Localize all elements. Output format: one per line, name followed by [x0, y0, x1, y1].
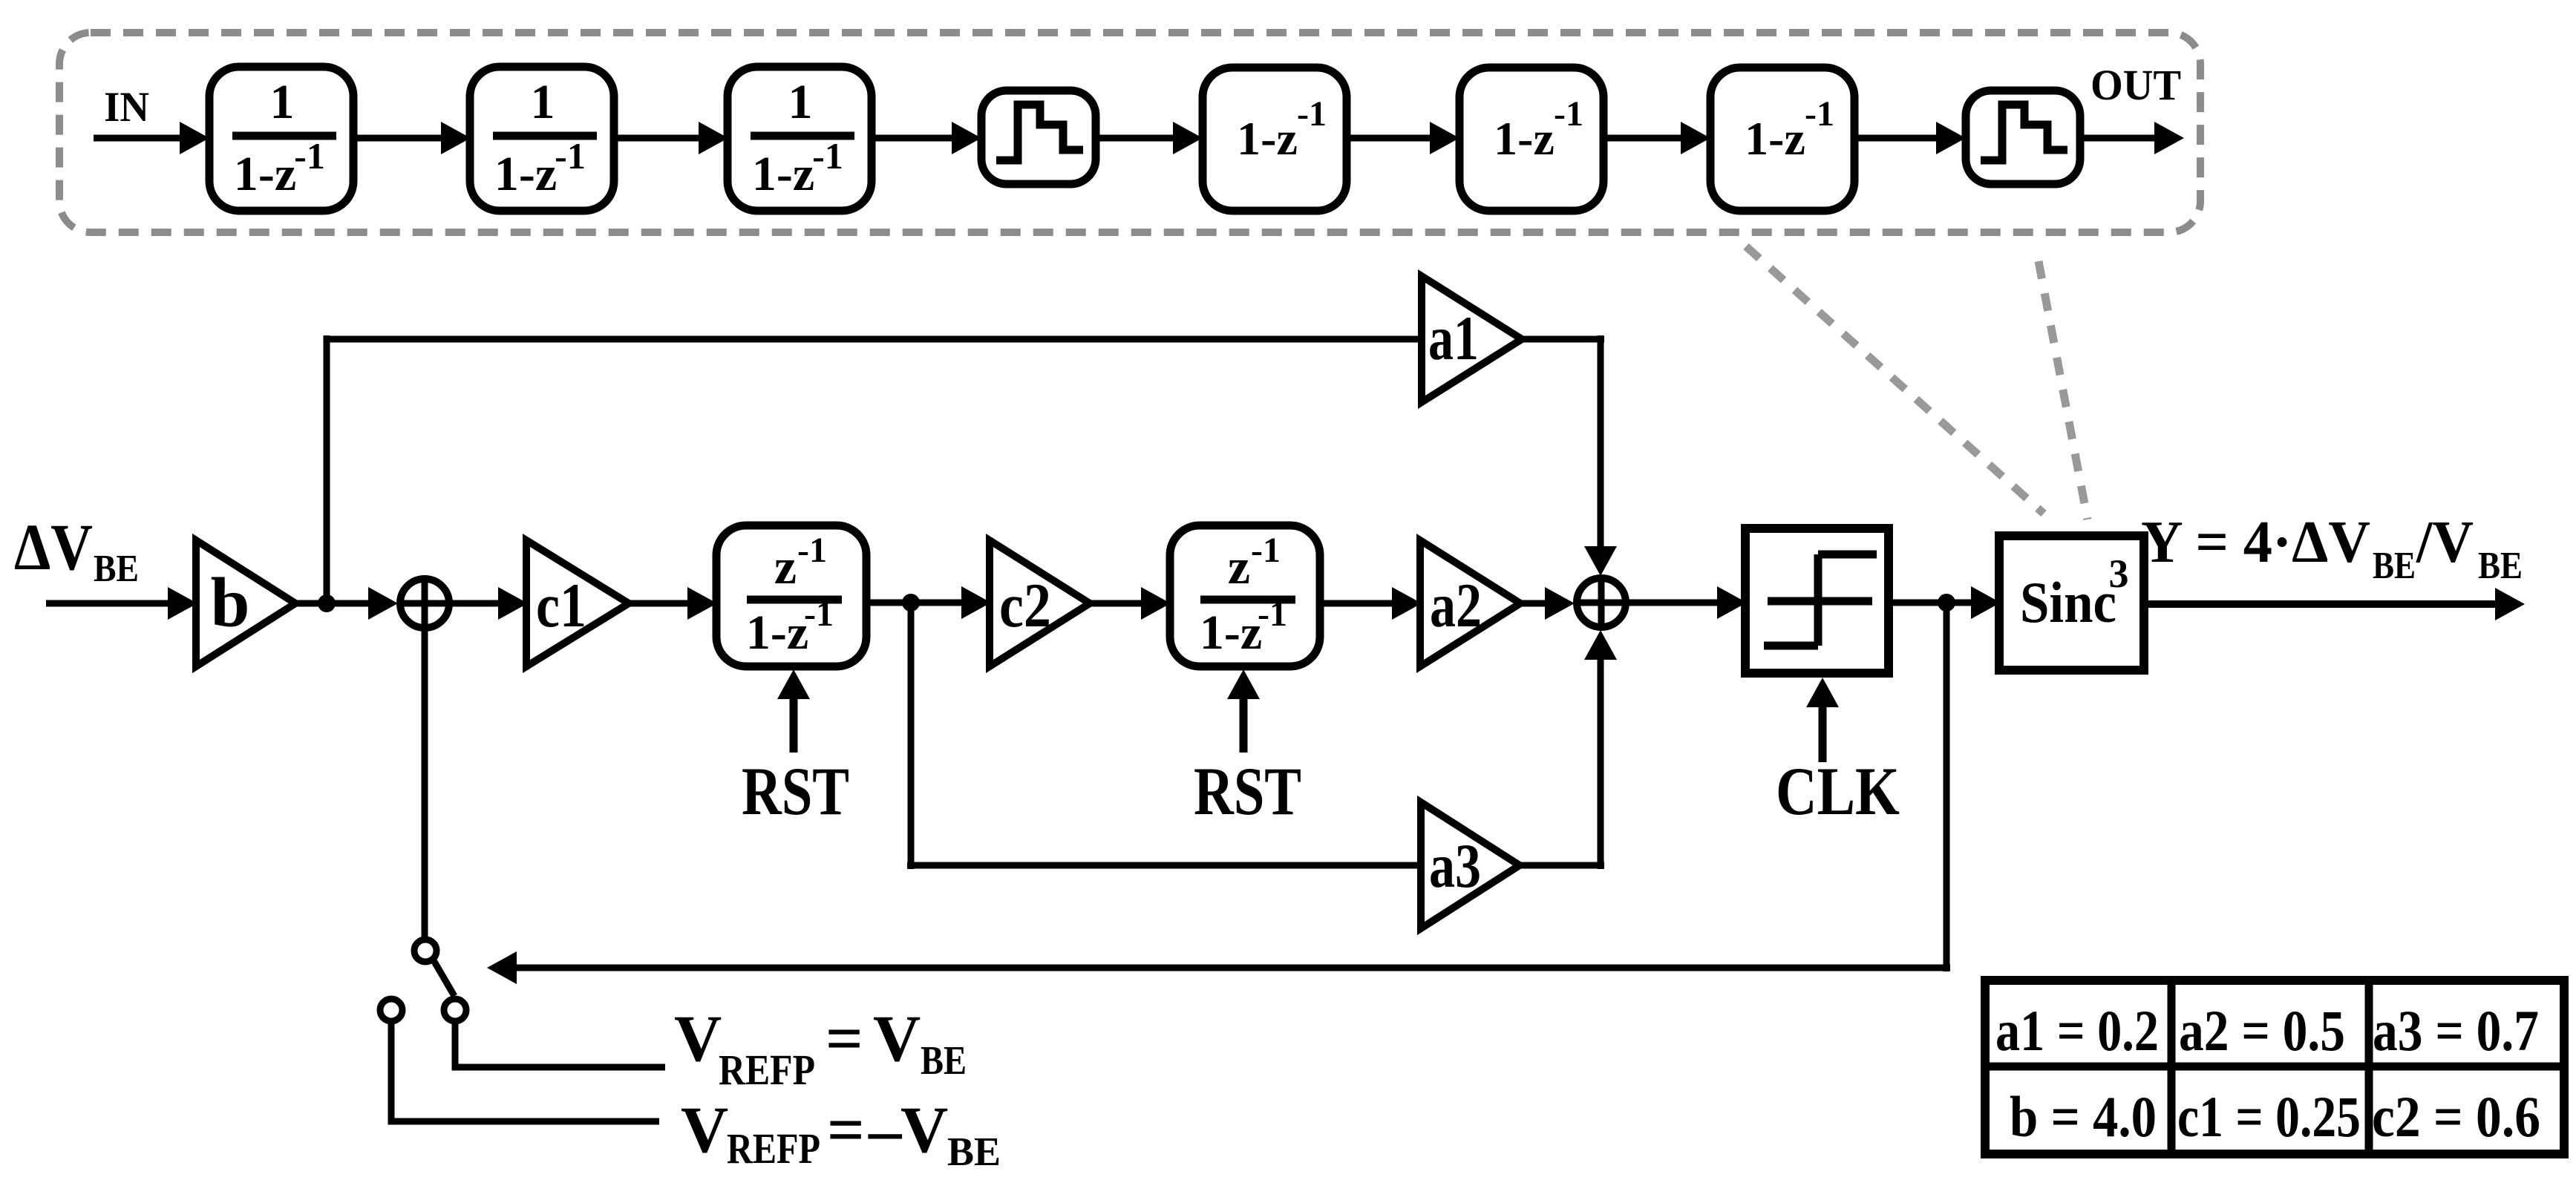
svg-text:V: V [900, 1094, 948, 1167]
svg-text:1-z: 1-z [746, 606, 808, 660]
svg-text:-1: -1 [294, 135, 325, 177]
svg-text:1-z: 1-z [1745, 112, 1805, 165]
svg-text:-1: -1 [555, 135, 586, 177]
svg-text:V: V [681, 1094, 728, 1167]
block decimator (downsample staircase) #1 [981, 91, 1096, 184]
svg-text:z: z [1228, 538, 1250, 594]
svg-text:a3 = 0.7: a3 = 0.7 [2373, 998, 2539, 1063]
svg-text:c2: c2 [999, 571, 1051, 640]
svg-text:BE: BE [2478, 545, 2523, 587]
svg-text:=: = [827, 1094, 865, 1167]
block decimator (downsample staircase) #2 [1966, 91, 2080, 184]
svg-text:1: 1 [531, 75, 555, 129]
wire VREFP=VBE stub [455, 1021, 665, 1067]
wire node A up to a1 branch [324, 335, 330, 603]
gain a1 triangle [1422, 276, 1522, 402]
wire VREFP=-VBE stub [391, 1021, 659, 1121]
svg-text:b: b [211, 563, 250, 642]
block integrator z^-1/(1-z^-1) #2 [1170, 525, 1320, 666]
block integrator 1/(1-z^-1) #2 [470, 67, 614, 211]
svg-text:a2: a2 [1430, 571, 1482, 640]
svg-text:-1: -1 [797, 531, 827, 570]
svg-text:-1: -1 [804, 594, 834, 634]
svg-text:Y = 4·ΔV: Y = 4·ΔV [2141, 510, 2370, 575]
RST arrow 2 [1240, 698, 1248, 753]
wire a3 to corner [1520, 862, 1604, 869]
svg-text:V: V [873, 1003, 921, 1075]
svg-text:1: 1 [788, 75, 813, 129]
svg-text:-1: -1 [1258, 594, 1287, 634]
wire OUT output [2079, 135, 2156, 142]
svg-text:1: 1 [270, 75, 295, 129]
block differentiator 1-z^-1 #1 [1203, 68, 1347, 211]
wire b6-decimator2 [1854, 135, 1939, 142]
wire summer1 down to switch [422, 603, 428, 940]
svg-text:-1: -1 [1554, 94, 1583, 134]
wire corner down to summer 2 [1598, 335, 1604, 549]
svg-text:c1: c1 [536, 571, 586, 640]
summer 1 circle with cross [400, 579, 449, 628]
summer 2 circle with cross [1577, 578, 1626, 627]
wire c2 to integrator2 [1090, 600, 1142, 607]
block integrator 1/(1-z^-1) #3 [728, 67, 872, 211]
CLK arrow [1819, 706, 1827, 762]
gain a2 triangle [1420, 540, 1520, 666]
wire IN input [94, 135, 183, 142]
dashed enclosure box [59, 33, 2200, 232]
svg-text:-1: -1 [1805, 94, 1834, 134]
gain b triangle [196, 540, 295, 666]
switch lever [434, 960, 454, 996]
svg-text:1-z: 1-z [752, 147, 814, 201]
wire a2 to summer 2 [1520, 600, 1546, 607]
svg-text:ΔV: ΔV [14, 511, 93, 584]
node VREFP = VBE label [674, 1003, 967, 1094]
svg-text:z: z [774, 538, 797, 594]
block integrator z^-1/(1-z^-1) #1 [716, 525, 866, 666]
wire b5-b6 [1604, 135, 1684, 142]
wire summer1 to c1 [451, 600, 500, 607]
arrow into summer 1 [368, 587, 398, 620]
svg-text:=: = [826, 1003, 863, 1075]
block differentiator 1-z^-1 #2 [1459, 68, 1604, 211]
wire b1-b2 [353, 135, 444, 142]
svg-text:BE: BE [947, 1129, 1001, 1174]
svg-text:a2 = 0.5: a2 = 0.5 [2179, 998, 2345, 1063]
wire Sinc3 output [2144, 600, 2497, 608]
svg-text:1-z: 1-z [1237, 112, 1298, 165]
svg-text:OUT: OUT [2090, 61, 2181, 109]
wire summer2 to comparator [1628, 600, 1719, 606]
gain a3 triangle [1421, 802, 1520, 928]
svg-text:b = 4.0: b = 4.0 [2010, 1084, 2157, 1149]
svg-text:-1: -1 [1297, 94, 1327, 134]
switch common terminal circle [414, 940, 437, 962]
node A junction dot [318, 594, 336, 612]
svg-text:-1: -1 [1251, 531, 1281, 570]
svg-text:BE: BE [94, 548, 139, 590]
wire b3-decimator [872, 135, 955, 142]
coefficient table [1985, 980, 2564, 1154]
dashed connector right (Sinc3 expansion) [2039, 261, 2088, 519]
svg-text:1-z: 1-z [1200, 606, 1262, 660]
wire node B down to a3 branch [908, 603, 915, 869]
block integrator 1/(1-z^-1) #1 [209, 67, 353, 211]
svg-text:REFP: REFP [727, 1124, 820, 1173]
svg-text:RST: RST [1194, 753, 1301, 829]
wire a3 branch horizontal [907, 862, 1422, 869]
svg-text:a3: a3 [1429, 831, 1481, 901]
wire c1 to integrator1 [629, 600, 689, 607]
wire corner up to summer 2 [1598, 658, 1604, 869]
svg-text:IN: IN [104, 84, 149, 131]
gain c1 triangle [526, 540, 629, 666]
wire feedback horizontal [517, 965, 1950, 971]
node B junction dot [902, 594, 920, 612]
svg-text:/V: /V [2416, 510, 2474, 575]
svg-text:V: V [674, 1003, 722, 1075]
block comparator (1-bit quantizer) [1745, 528, 1889, 673]
wire b2-b3 [615, 135, 702, 142]
svg-text:3: 3 [2109, 551, 2129, 596]
wire a1 to corner [1522, 336, 1604, 343]
wire b to node A [295, 600, 370, 607]
wire b4-b5 [1347, 135, 1433, 142]
svg-text:BE: BE [921, 1038, 967, 1083]
svg-text:BE: BE [2373, 545, 2416, 587]
wire comparator to node C [1889, 600, 1972, 606]
RST arrow 1 [790, 698, 798, 753]
svg-text:CLK: CLK [1776, 753, 1900, 829]
wire integrator1 to c2 [869, 600, 963, 606]
switch throw terminal circle left [380, 999, 402, 1021]
svg-text:-1: -1 [812, 135, 843, 177]
node output equation label [2141, 510, 2523, 587]
gain c2 triangle [990, 540, 1090, 666]
block Sinc3 decimation filter [1999, 536, 2144, 670]
svg-text:–: – [868, 1094, 903, 1167]
svg-text:a1: a1 [1428, 304, 1479, 373]
wire a1 branch horizontal [324, 336, 1423, 343]
svg-text:Sinc: Sinc [2020, 570, 2116, 635]
node VREFP = -VBE label [681, 1094, 1001, 1174]
node dVBE input label [14, 511, 139, 590]
svg-text:c2 = 0.6: c2 = 0.6 [2372, 1084, 2540, 1149]
node C junction dot [1938, 594, 1955, 612]
svg-text:1-z: 1-z [234, 147, 296, 201]
wire input to gain b [46, 600, 169, 607]
svg-text:a1 = 0.2: a1 = 0.2 [1995, 998, 2159, 1063]
switch throw terminal circle right [444, 999, 466, 1021]
dashed connector left (Sinc3 expansion) [1746, 246, 2044, 514]
wire integrator2 to a2 [1322, 600, 1393, 607]
block differentiator 1-z^-1 #3 [1710, 68, 1854, 211]
svg-text:RST: RST [742, 753, 849, 829]
svg-text:REFP: REFP [719, 1046, 815, 1094]
wire decimator-b4 [1096, 135, 1176, 142]
wire feedback vertical from node C [1944, 603, 1950, 971]
svg-text:c1 = 0.25: c1 = 0.25 [2177, 1084, 2361, 1149]
svg-text:1-z: 1-z [1494, 112, 1555, 165]
svg-text:1-z: 1-z [494, 147, 557, 201]
